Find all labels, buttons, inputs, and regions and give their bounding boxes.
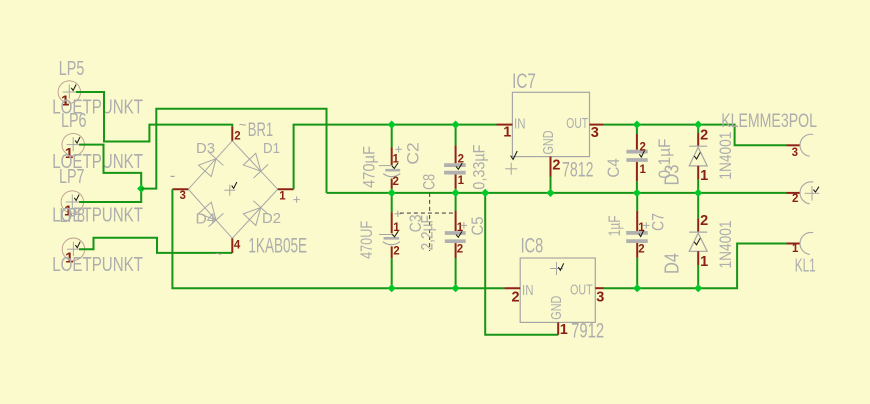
- svg-text:IC8: IC8: [521, 234, 544, 258]
- junction C4 middle rail: [634, 190, 641, 197]
- label 1N4001 of D4: [716, 221, 735, 269]
- junction LP6/LP7 center tap: [138, 185, 145, 192]
- junction D3 top rail: [695, 121, 702, 128]
- svg-text:0,33µF: 0,33µF: [470, 145, 489, 190]
- label LP8: [60, 205, 86, 227]
- bridge pin 2: [232, 127, 240, 143]
- label LOETPUNKT of LP6: [52, 151, 143, 173]
- svg-text:470µF: 470µF: [360, 146, 379, 188]
- junction C5 bottom rail: [452, 285, 459, 292]
- svg-text:1: 1: [700, 254, 708, 270]
- diode D4: [689, 193, 708, 288]
- middle rail GND: [327, 192, 787, 194]
- capacitor 0.33uF top: [444, 125, 466, 193]
- junction C4 top rail: [634, 121, 641, 128]
- label 2,2uF of C8: [418, 215, 437, 251]
- svg-text:1µF: 1µF: [605, 215, 624, 236]
- junction D3 middle rail: [695, 190, 702, 197]
- label LP6: [61, 110, 87, 132]
- label D4 (bridge): [196, 211, 216, 228]
- svg-text:1: 1: [638, 222, 645, 234]
- label 470uF of C2: [360, 146, 379, 188]
- svg-text:2,2µF: 2,2µF: [418, 215, 437, 251]
- label 1N4001 of D3: [716, 132, 735, 180]
- label LOETPUNKT of LP8: [52, 254, 143, 276]
- label LP7: [59, 166, 85, 188]
- svg-text:~: ~: [215, 246, 223, 261]
- wire bridge pin 1 to top rail: [294, 125, 497, 190]
- junction D4 bottom rail: [695, 285, 702, 292]
- svg-text:KLEMME3POL: KLEMME3POL: [721, 111, 817, 132]
- svg-text:BR1: BR1: [248, 120, 273, 141]
- svg-text:1: 1: [503, 125, 511, 141]
- svg-text:2: 2: [457, 244, 463, 256]
- svg-text:D3: D3: [196, 140, 215, 157]
- svg-text:2: 2: [792, 193, 798, 205]
- label 7812: [562, 159, 594, 182]
- svg-text:D2: D2: [262, 210, 281, 227]
- svg-text:2: 2: [700, 213, 708, 229]
- svg-text:3: 3: [591, 125, 599, 141]
- svg-text:C8: C8: [420, 174, 439, 190]
- connector KLEMME3POL pin 2: [787, 182, 820, 205]
- svg-text:C2: C2: [404, 142, 423, 164]
- svg-text:LP8: LP8: [60, 205, 86, 227]
- svg-text:D3: D3: [662, 165, 684, 186]
- wire center junction to middle rail: [141, 109, 326, 193]
- svg-text:3: 3: [180, 190, 186, 202]
- connector KLEMME3POL pin 3: [787, 134, 814, 159]
- bridge pin 3: [172, 189, 188, 202]
- svg-text:C5: C5: [468, 217, 487, 236]
- label 470UF of C3: [357, 221, 376, 259]
- bridge pin 4: [232, 238, 241, 253]
- svg-text:7812: 7812: [562, 159, 594, 182]
- svg-text:3: 3: [596, 289, 604, 305]
- svg-text:OUT: OUT: [566, 115, 588, 132]
- label BR1: [248, 120, 273, 141]
- label 1KAB05E: [248, 234, 307, 257]
- label C3: [406, 214, 425, 232]
- svg-text:IN: IN: [522, 282, 534, 299]
- svg-text:C7: C7: [649, 213, 668, 231]
- svg-text:7912: 7912: [571, 320, 604, 343]
- label D4: [662, 253, 684, 274]
- svg-text:2: 2: [552, 157, 560, 173]
- svg-text:D4: D4: [662, 253, 684, 274]
- label KL1: [795, 256, 816, 276]
- label 0,1uF of C4: [655, 139, 674, 179]
- bridge diode D2: [243, 201, 268, 226]
- svg-text:1: 1: [393, 222, 400, 234]
- svg-text:2: 2: [234, 131, 240, 143]
- voltage regulator IC7: [497, 92, 604, 193]
- capacitor C5: [445, 193, 467, 288]
- label 0,33uF: [470, 145, 489, 190]
- label 1uF of C7: [605, 215, 624, 236]
- svg-text:1: 1: [700, 168, 708, 184]
- label KLEMME3POL: [721, 111, 817, 132]
- svg-text:1N4001: 1N4001: [716, 132, 735, 180]
- svg-text:2: 2: [640, 142, 646, 154]
- wire LP5 to bridge pin 2: [76, 92, 232, 142]
- label C7: [649, 213, 668, 231]
- diode D3: [689, 125, 708, 193]
- bridge origin cross: [224, 185, 235, 196]
- capacitor C2: [379, 125, 402, 193]
- svg-text:2: 2: [700, 127, 708, 143]
- label LOETPUNKT of LP7: [52, 205, 143, 227]
- bridge plus mark: [293, 196, 299, 202]
- label D3 (bridge): [196, 140, 215, 157]
- bridge diode D1: [243, 153, 268, 178]
- svg-text:1: 1: [279, 191, 286, 203]
- solder pad LP7: [61, 191, 83, 220]
- bridge minus mark: [171, 175, 175, 177]
- svg-text:IN: IN: [514, 116, 526, 133]
- label LOETPUNKT of LP5: [52, 97, 143, 119]
- label IC7: [512, 69, 536, 93]
- svg-text:2: 2: [638, 244, 644, 256]
- junction IC7 GND middle rail: [547, 190, 554, 197]
- label 7912: [571, 320, 604, 343]
- svg-text:1KAB05E: 1KAB05E: [248, 234, 307, 257]
- bridge rectifier BR1 body: [188, 141, 277, 239]
- label C2: [404, 142, 423, 164]
- wire IC7 OUT to KLEMME3POL pin 3: [604, 125, 787, 146]
- svg-text:LP5: LP5: [59, 58, 85, 80]
- wire LP6 to center junction: [79, 145, 141, 189]
- capacitor C7: [626, 193, 649, 288]
- label D1 (bridge): [263, 140, 280, 157]
- svg-text:OUT: OUT: [570, 282, 593, 299]
- bridge checkmark: [232, 182, 237, 188]
- svg-text:1: 1: [458, 175, 465, 187]
- svg-text:1: 1: [393, 154, 400, 166]
- svg-text:KL1: KL1: [795, 256, 816, 276]
- svg-text:IC7: IC7: [512, 69, 536, 93]
- label C5: [468, 217, 487, 236]
- label C4: [604, 158, 623, 177]
- svg-text:2: 2: [458, 154, 464, 166]
- bridge diode D4: [199, 202, 224, 227]
- svg-text:1: 1: [792, 243, 799, 255]
- junction C2 middle rail: [388, 190, 395, 197]
- wire LP7 to center junction: [79, 189, 141, 202]
- svg-text:LP6: LP6: [61, 110, 87, 132]
- svg-text:3: 3: [792, 147, 798, 159]
- label LP5: [59, 58, 85, 80]
- svg-text:D4: D4: [196, 211, 216, 228]
- label C8: [420, 174, 439, 190]
- capacitor C4: [626, 125, 647, 193]
- bridge diode D3: [199, 152, 224, 177]
- solder pad LP5: [58, 81, 80, 110]
- svg-text:2: 2: [512, 289, 520, 305]
- junction C3 bottom rail: [388, 285, 395, 292]
- svg-text:1: 1: [560, 322, 568, 338]
- svg-text:470UF: 470UF: [357, 221, 376, 259]
- wire middle rail to IC8 GND: [485, 193, 558, 335]
- voltage regulator IC8: [504, 258, 604, 338]
- svg-text:2: 2: [393, 176, 399, 188]
- capacitor C8 (dashed): [400, 193, 456, 251]
- svg-text:GND: GND: [548, 296, 565, 320]
- svg-text:1: 1: [640, 164, 647, 176]
- junction 0.33uF top rail: [452, 121, 459, 128]
- wire IC8 OUT to KL1 pin 1: [604, 244, 787, 289]
- svg-text:2: 2: [393, 245, 399, 257]
- svg-text:1: 1: [457, 222, 464, 234]
- svg-text:LOETPUNKT: LOETPUNKT: [52, 254, 143, 276]
- wire bridge pin 3 down to bottom rail: [172, 189, 504, 288]
- junction 0.33uF middle rail: [452, 190, 459, 197]
- wire LP8 to bridge pin 4: [79, 238, 232, 253]
- bridge AC mark near pin 2: [239, 117, 247, 132]
- label IC8: [521, 234, 544, 258]
- capacitor C3: [379, 193, 401, 288]
- bridge AC mark near pin 4: [215, 246, 223, 261]
- svg-text:LP7: LP7: [59, 166, 85, 188]
- solder pad LP6: [62, 133, 84, 162]
- svg-text:~: ~: [239, 117, 247, 132]
- solder pad LP8: [62, 238, 84, 267]
- connector KL1 pin 1: [787, 232, 814, 254]
- svg-text:1N4001: 1N4001: [716, 221, 735, 269]
- junction C2 top rail: [388, 121, 395, 128]
- svg-text:4: 4: [234, 240, 241, 252]
- junction C7 bottom rail: [634, 285, 641, 292]
- svg-text:D1: D1: [263, 140, 280, 157]
- label D3: [662, 165, 684, 186]
- svg-text:C4: C4: [604, 158, 623, 177]
- bridge pin 1: [278, 189, 294, 202]
- junction IC8 GND middle rail: [482, 190, 489, 197]
- label D2 (bridge): [262, 210, 281, 227]
- svg-text:GND: GND: [540, 130, 557, 154]
